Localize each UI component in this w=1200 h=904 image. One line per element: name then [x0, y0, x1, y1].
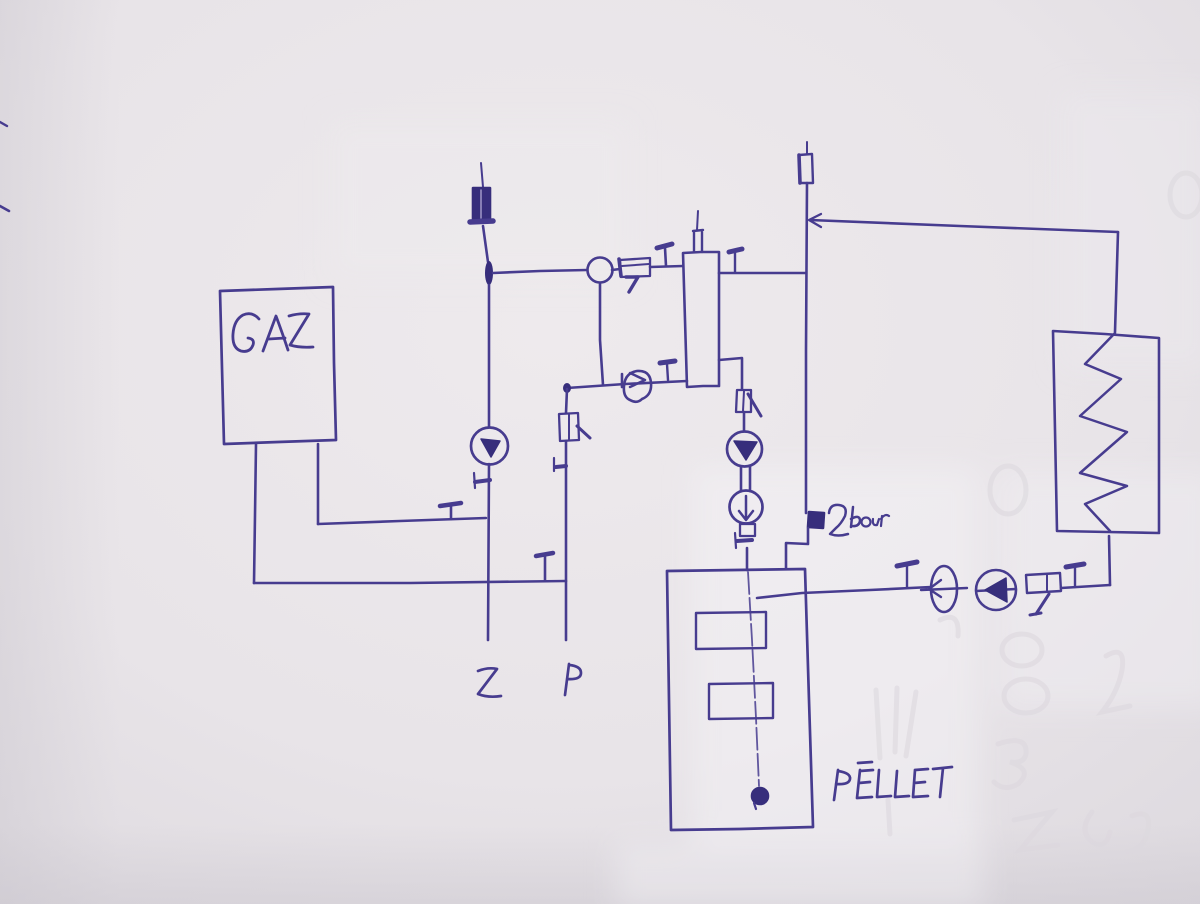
wire right riser: [806, 183, 807, 513]
tap H2 below fitting: [737, 540, 752, 541]
tap H1 below pump P1: [475, 480, 490, 482]
tap T1 on GAZ-Z wire: [440, 503, 461, 506]
boiler PELLET box: [667, 569, 813, 830]
valve V4 motor body with arrow: [730, 491, 763, 524]
wire Z riser to pump: [488, 285, 491, 427]
pump P4 circle with filled arrow: [976, 570, 1016, 610]
wire P riser upper: [566, 389, 567, 413]
stray pen mark left edge A: [0, 122, 7, 126]
heat exchanger coil zigzag: [1080, 333, 1127, 531]
wire top header left: [493, 270, 587, 273]
hydraulic separator S1: [683, 252, 719, 387]
wire PELLET supply out: [757, 587, 931, 598]
pump P3 ellipse with arrow: [931, 566, 957, 612]
PELLET inner feed line: [748, 572, 759, 786]
wire mixing line to separator: [567, 381, 687, 388]
label Z: [478, 668, 501, 696]
right riser top stem: [806, 142, 808, 154]
wire GAZ bottom-right down: [317, 444, 320, 524]
label GAZ: [233, 314, 313, 352]
arrowhead into right riser: [809, 214, 821, 227]
wire GAZ right horizontal to node Z: [318, 518, 486, 524]
label PELLET: [834, 762, 952, 800]
wire top return header: [810, 220, 1118, 232]
wire GAZ bottom-left down: [254, 444, 256, 583]
tap T5 on supply: [897, 562, 917, 566]
boiler GAZ box: [220, 287, 336, 444]
wire separator right-side branch: [719, 358, 742, 389]
PELLET inner hopper rect1: [696, 612, 766, 649]
tap H3 on P riser: [556, 466, 566, 467]
pump P5 blob on mixing line: [624, 371, 651, 402]
junction blob node P-top: [563, 383, 571, 393]
drain square node 2bout: [808, 512, 824, 528]
wire supply to exchanger: [1061, 585, 1110, 588]
wire circle C1 drop leg: [600, 283, 603, 385]
wire GAZ bottom horizontal to node P: [254, 581, 566, 583]
expansion fitting F1 on right riser: [799, 154, 813, 183]
pump P2 on boiler branch: [727, 432, 762, 467]
separator top stub: [693, 230, 703, 252]
label 2 bout: [829, 505, 889, 536]
air vent V1 filled body: [473, 188, 490, 220]
air vent stem on Z riser: [481, 163, 483, 187]
valve V3 on boiler branch: [736, 390, 751, 412]
fitting square below V4: [740, 524, 755, 536]
wire exchanger down leg: [1109, 536, 1110, 585]
wire into PELLET top: [746, 548, 749, 570]
valve V2 on top header: [620, 258, 650, 277]
tap T7 on mixing line: [660, 361, 675, 363]
tap T2 on GAZ-P wire: [536, 553, 553, 556]
PELLET inner hopper rect2: [709, 683, 773, 719]
stray pen mark left edge B: [0, 206, 9, 211]
tap T6 on supply: [1066, 564, 1084, 567]
tap T4 right of separator: [729, 249, 742, 252]
wire riser step into PELLET: [786, 528, 808, 568]
wire valve to pump P2: [743, 412, 746, 430]
wire header down to exchanger: [1115, 232, 1118, 332]
wire Z riser lower: [488, 464, 489, 640]
wire separator to right riser: [719, 272, 806, 275]
wire valve to separator: [650, 266, 683, 267]
tap T3 on top header: [657, 244, 672, 248]
valve V6 on P riser: [559, 413, 579, 441]
heat exchanger HX box: [1053, 331, 1159, 533]
pump P1 on Z riser: [471, 428, 508, 465]
junction blob node Z-top: [485, 261, 493, 285]
connector pipes below pump P2: [741, 467, 750, 491]
wire P riser lower: [565, 441, 568, 640]
check valve C1 circle: [588, 258, 613, 283]
burner node circle: [752, 788, 768, 804]
label P: [565, 664, 581, 695]
wire Z riser upper: [483, 226, 488, 262]
valve V5 on supply: [1026, 573, 1061, 593]
